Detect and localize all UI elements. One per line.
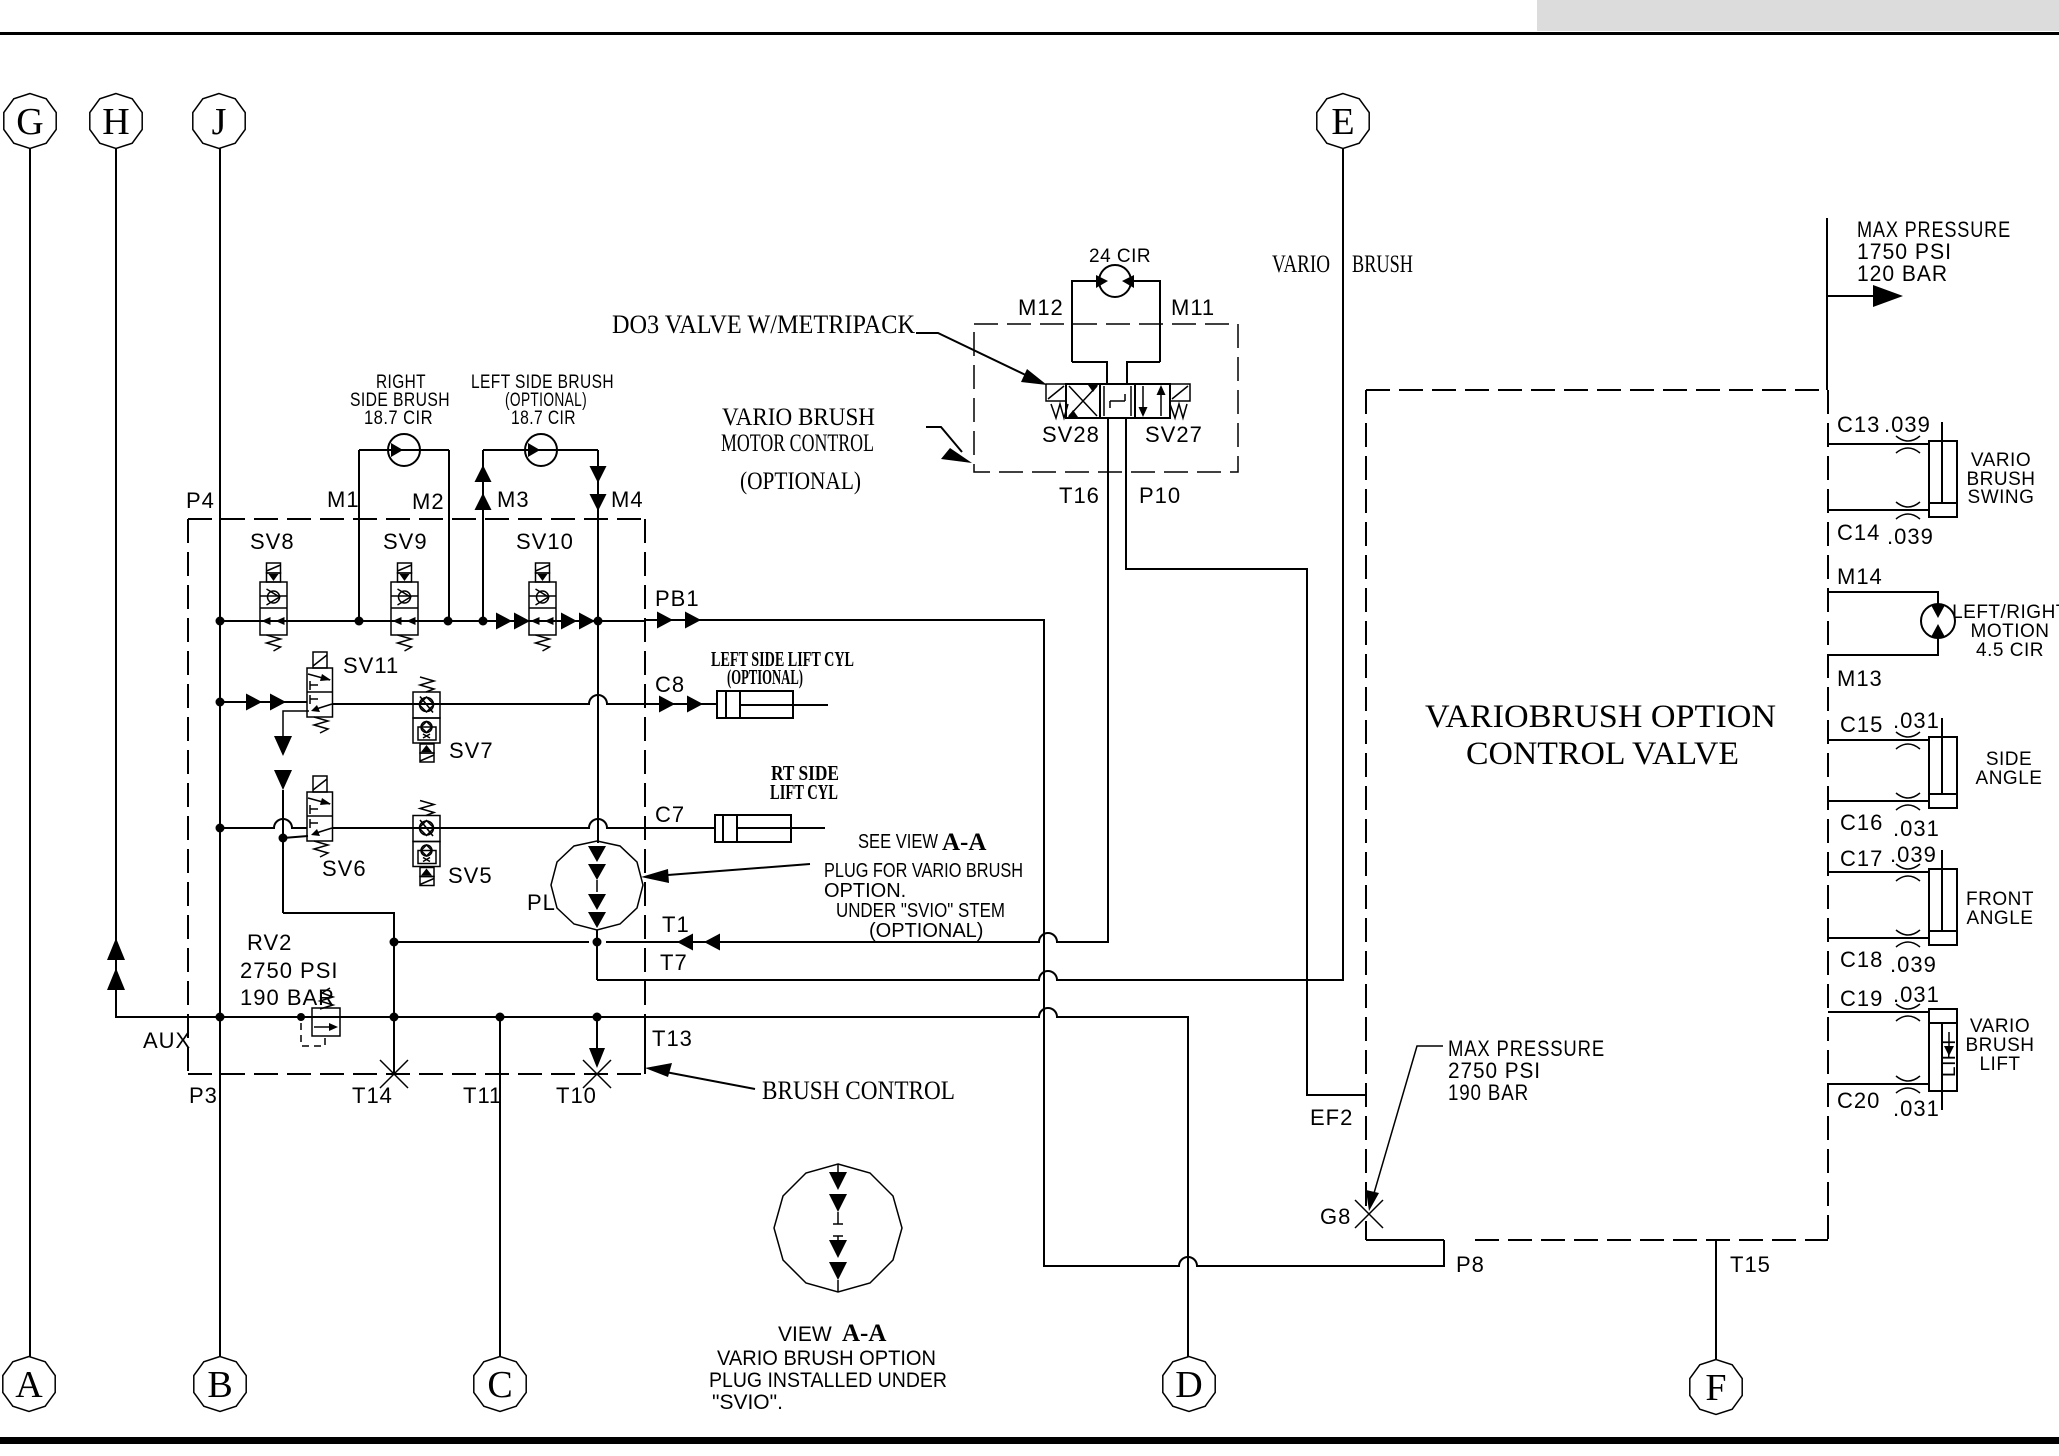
wire SV6 out to C7 (332, 819, 715, 828)
max pressure 1750 note (1826, 218, 1828, 390)
top border line (0, 32, 2059, 35)
svg-text:VARIO: VARIO (1970, 1016, 2030, 1037)
relief valve RV2 (297, 988, 340, 1046)
node F (1690, 1360, 1742, 1415)
wire H down to AUX corner (116, 148, 130, 1017)
motor left/right motion (1921, 604, 1955, 638)
svg-text:LEFT/RIGHT: LEFT/RIGHT (1952, 602, 2059, 623)
wire PL bottom through T1 to T7 line (596, 930, 598, 980)
wire P10 route to EF2 (1126, 418, 1366, 1095)
arrows left on T1 (677, 934, 693, 951)
svg-text:P4: P4 (186, 488, 215, 513)
wire AUX/T13 horizontal (116, 1008, 1188, 1357)
svg-text:T11: T11 (463, 1083, 502, 1108)
svg-text:SV5: SV5 (448, 863, 493, 888)
svg-text:.039: .039 (1890, 952, 1937, 977)
arrows right SV11 row (246, 694, 262, 711)
svg-text:BRUSH: BRUSH (1965, 1035, 2034, 1056)
svg-text:C: C (487, 1364, 512, 1406)
svg-text:(OPTIONAL): (OPTIONAL) (740, 468, 861, 495)
wire M3 with up arrow (482, 450, 484, 621)
leader SEE VIEW A-A (655, 864, 810, 876)
svg-text:18.7 CIR: 18.7 CIR (511, 408, 576, 429)
svg-text:VIEW: VIEW (778, 1323, 832, 1346)
svg-text:G: G (16, 101, 43, 143)
check valve stack SV5 (413, 801, 440, 886)
port C16 wire (1828, 800, 1929, 802)
svg-text:T16: T16 (1059, 483, 1100, 508)
svg-text:FRONT: FRONT (1966, 889, 2034, 910)
port X mark T10 (583, 1060, 611, 1088)
leader D03 VALVE (916, 333, 1036, 380)
svg-text:SV7: SV7 (449, 738, 494, 763)
svg-text:DO3 VALVE W/METRIPACK: DO3 VALVE W/METRIPACK (612, 310, 915, 339)
port C13 wire (1828, 443, 1929, 445)
port C15 wire (1828, 739, 1929, 741)
SV6 row wire with bridge over drain (220, 819, 307, 828)
supply rail y=621 (220, 620, 645, 622)
svg-text:T15: T15 (1730, 1252, 1771, 1277)
svg-text:120 BAR: 120 BAR (1857, 261, 1948, 286)
left side brush motor (483, 434, 598, 466)
svg-text:.031: .031 (1893, 982, 1940, 1007)
view A-A plug circle (774, 1164, 902, 1292)
svg-text:UNDER "SVIO" STEM: UNDER "SVIO" STEM (836, 900, 1005, 922)
solenoid cartridge valve SV9 (391, 563, 418, 651)
svg-text:18.7 CIR: 18.7 CIR (364, 408, 433, 429)
svg-text:C16: C16 (1840, 810, 1883, 835)
svg-text:LIFT: LIFT (1939, 1036, 1960, 1077)
svg-text:M4: M4 (611, 487, 644, 512)
svg-text:VARIO: VARIO (1971, 450, 2031, 471)
svg-text:H: H (102, 101, 129, 143)
svg-text:LIFT: LIFT (1979, 1054, 2020, 1075)
wire M4 with down arrow, down to PL (597, 450, 599, 843)
vent arrow 2 (274, 770, 292, 790)
svg-text:.039: .039 (1890, 842, 1937, 867)
svg-text:EF2: EF2 (1310, 1105, 1353, 1130)
svg-text:T14: T14 (352, 1083, 393, 1108)
port C19 wire (1828, 1011, 1929, 1013)
svg-text:(OPTIONAL): (OPTIONAL) (727, 665, 803, 689)
svg-text:G8: G8 (1320, 1204, 1351, 1229)
arrows right at PB1 port (657, 612, 673, 629)
svg-text:190 BAR: 190 BAR (240, 985, 335, 1010)
svg-text:BRUSH: BRUSH (1352, 251, 1413, 278)
SV6 drain link (283, 836, 308, 838)
motor loop rectangle (1072, 281, 1099, 362)
junction AUX-T14 (390, 1013, 399, 1022)
T1 line from SV6 drain corner to T16 (394, 420, 1108, 942)
cylinder side angle (1929, 718, 1957, 808)
svg-text:VARIO BRUSH OPTION: VARIO BRUSH OPTION (717, 1347, 936, 1370)
svg-text:A-A: A-A (942, 829, 986, 856)
svg-text:PLUG FOR VARIO BRUSH: PLUG FOR VARIO BRUSH (824, 860, 1023, 882)
wire SV11 out to C8 (332, 695, 717, 704)
SV11 row wire (220, 701, 307, 703)
BRUSH CONTROL dashed manifold box (188, 519, 645, 1074)
title block gray area top right (1537, 0, 2059, 31)
plug PL circle (551, 841, 643, 930)
svg-text:VARIO BRUSH: VARIO BRUSH (722, 404, 875, 431)
svg-text:P8: P8 (1456, 1252, 1485, 1277)
T7 line to E (597, 971, 1343, 980)
wire T10 drop with arrow (596, 1017, 598, 1050)
node B (194, 1357, 246, 1412)
svg-text:LIFT CYL: LIFT CYL (770, 780, 838, 804)
svg-text:M12: M12 (1018, 295, 1064, 320)
svg-text:"SVIO".: "SVIO". (712, 1391, 783, 1414)
svg-text:D: D (1175, 1364, 1202, 1406)
port C14 wire (1828, 509, 1929, 511)
junction AUX-P3 (216, 1013, 225, 1022)
right side brush motor M1 (359, 434, 449, 466)
svg-text:B: B (207, 1364, 232, 1406)
node D (1163, 1357, 1215, 1412)
svg-text:M2: M2 (412, 489, 445, 514)
wire J to B (P3 line) (219, 148, 221, 1357)
svg-text:MOTOR CONTROL: MOTOR CONTROL (721, 430, 874, 457)
node H (90, 94, 142, 149)
svg-text:ANGLE: ANGLE (1976, 768, 2043, 789)
svg-text:(OPTIONAL): (OPTIONAL) (869, 920, 983, 942)
svg-text:.039: .039 (1887, 524, 1934, 549)
svg-text:A: A (15, 1364, 43, 1406)
svg-text:AUX: AUX (143, 1028, 191, 1053)
arrow up on H line 2 (107, 968, 125, 990)
svg-text:C8: C8 (655, 672, 685, 697)
vario brush dashed box (974, 324, 1238, 472)
port X mark T14 (380, 1060, 408, 1088)
svg-text:.031: .031 (1893, 708, 1940, 733)
svg-text:SV10: SV10 (516, 529, 574, 554)
SV11 drain stub (283, 711, 309, 737)
svg-text:SWING: SWING (1968, 487, 2035, 508)
svg-text:BRUSH CONTROL: BRUSH CONTROL (762, 1076, 955, 1105)
node J (193, 94, 245, 149)
svg-text:M13: M13 (1837, 666, 1883, 691)
svg-text:C7: C7 (655, 802, 685, 827)
wire T16 down (1107, 418, 1109, 942)
svg-text:VARIOBRUSH OPTION: VARIOBRUSH OPTION (1425, 699, 1776, 735)
svg-text:190 BAR: 190 BAR (1448, 1080, 1529, 1105)
arrows right on rail before SV10 (496, 613, 512, 630)
node A (3, 1357, 55, 1412)
drain runs to T1 line (283, 913, 394, 1074)
arrow up on H line (107, 938, 125, 960)
svg-text:MOTION: MOTION (1971, 621, 2050, 642)
svg-text:VARIO: VARIO (1272, 251, 1330, 278)
svg-text:C20: C20 (1837, 1088, 1880, 1113)
arrow down T10 (589, 1048, 605, 1068)
svg-text:M11: M11 (1171, 295, 1215, 320)
svg-text:C15: C15 (1840, 712, 1883, 737)
svg-text:4.5 CIR: 4.5 CIR (1976, 640, 2044, 661)
svg-text:PB1: PB1 (655, 586, 700, 611)
arrows right at C8 (659, 696, 675, 713)
PB1 line down right side (645, 620, 1444, 1266)
solenoid cartridge valve SV8 (260, 563, 287, 651)
wire E down to T7 corner (1330, 148, 1343, 980)
valve SV6 (307, 776, 333, 857)
wire T15 down to F (1715, 1240, 1717, 1360)
svg-text:C19: C19 (1840, 986, 1883, 1011)
port C17 wire (1828, 871, 1929, 873)
cylinder C7 (715, 815, 825, 842)
BRUSH CONTROL leader (655, 1070, 755, 1089)
svg-text:F: F (1705, 1367, 1726, 1409)
svg-text:A-A: A-A (842, 1320, 886, 1347)
junction T1-PL (593, 938, 602, 947)
node G (4, 94, 56, 149)
solenoid cartridge valve SV10 (529, 563, 556, 651)
svg-text:2750 PSI: 2750 PSI (240, 958, 339, 983)
leader MAX PRESSURE 2750 (1372, 1046, 1443, 1200)
svg-text:M3: M3 (497, 487, 530, 512)
vent arrow (274, 736, 292, 756)
wire T11 down to C (499, 1017, 501, 1357)
svg-text:PL: PL (527, 890, 556, 915)
svg-text:M14: M14 (1837, 564, 1883, 589)
svg-text:J: J (212, 101, 227, 143)
DO3 4/3 valve body (1046, 384, 1190, 418)
port C20 wire (1828, 1083, 1929, 1085)
drain wire down to SV6 (282, 790, 284, 913)
wire M2 (448, 450, 450, 621)
svg-text:OPTION.: OPTION. (824, 880, 906, 902)
svg-text:.031: .031 (1893, 816, 1940, 841)
svg-text:C18: C18 (1840, 947, 1883, 972)
svg-text:RV2: RV2 (247, 930, 292, 955)
svg-text:SV11: SV11 (343, 653, 399, 678)
svg-text:PLUG INSTALLED UNDER: PLUG INSTALLED UNDER (709, 1369, 947, 1392)
svg-text:CONTROL VALVE: CONTROL VALVE (1466, 736, 1739, 772)
wire G to A (29, 148, 31, 1357)
leader VARIO BRUSH MOTOR CONTROL (926, 427, 962, 452)
svg-text:T7: T7 (660, 950, 688, 975)
cylinder C8 (717, 691, 828, 718)
svg-text:SV6: SV6 (322, 856, 367, 881)
svg-text:T13: T13 (652, 1026, 693, 1051)
svg-text:T1: T1 (662, 912, 690, 937)
svg-text:P3: P3 (189, 1083, 218, 1108)
vario brush motor circle (1096, 265, 1134, 297)
node E (1317, 94, 1369, 149)
check valve stack SV7 (413, 677, 440, 762)
svg-text:E: E (1331, 101, 1354, 143)
wire M1 (358, 450, 360, 621)
svg-text:C13: C13 (1837, 412, 1880, 437)
port C18 wire (1828, 937, 1929, 939)
svg-text:C17: C17 (1840, 846, 1883, 871)
svg-text:SV28: SV28 (1042, 422, 1100, 447)
svg-text:SIDE: SIDE (1986, 749, 2032, 770)
cylinder vario brush swing (1929, 422, 1957, 517)
svg-text:C14: C14 (1837, 520, 1880, 545)
svg-text:P10: P10 (1139, 483, 1181, 508)
cylinder vario brush lift (1929, 1009, 1960, 1110)
svg-text:ANGLE: ANGLE (1967, 908, 2034, 929)
cylinder front angle (1929, 850, 1957, 945)
svg-text:SV8: SV8 (250, 529, 295, 554)
svg-text:T10: T10 (556, 1083, 597, 1108)
port X mark G8 (1355, 1200, 1383, 1228)
junction AUX-T11 (496, 1013, 505, 1022)
junction AUX-T10 (593, 1013, 602, 1022)
svg-text:.039: .039 (1884, 412, 1931, 437)
valve SV11 (307, 652, 333, 733)
svg-text:SEE VIEW: SEE VIEW (858, 831, 938, 853)
bottom border line (0, 1437, 2059, 1444)
port MI4 wire (1828, 592, 1938, 605)
svg-text:M1: M1 (327, 487, 360, 512)
svg-text:.031: .031 (1893, 1096, 1940, 1121)
arrows right on rail after SV10 (561, 613, 577, 630)
svg-text:SV9: SV9 (383, 529, 428, 554)
svg-text:24 CIR: 24 CIR (1089, 246, 1151, 267)
node C (474, 1357, 526, 1412)
junction T1-x394 (390, 938, 399, 947)
svg-text:SV27: SV27 (1145, 422, 1203, 447)
